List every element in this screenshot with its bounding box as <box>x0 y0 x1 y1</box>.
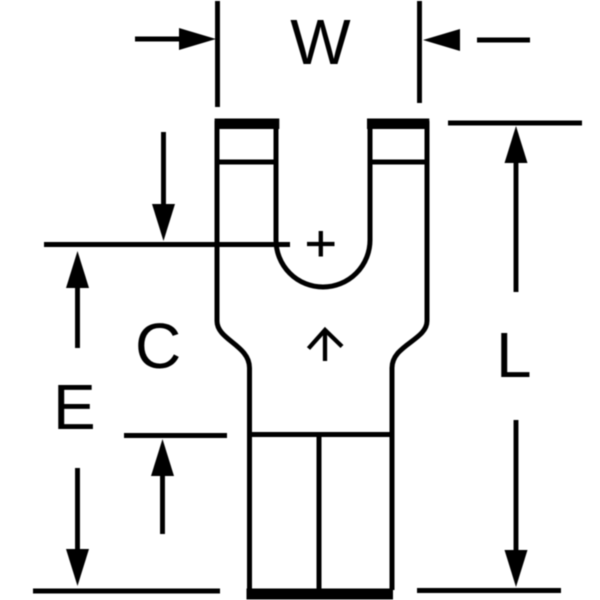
L down arrowhead <box>505 550 528 587</box>
bottom baseline left segment <box>33 589 220 594</box>
svg-text:L: L <box>496 319 532 391</box>
W right dash <box>477 38 530 43</box>
C lower dimension line <box>160 475 165 534</box>
W left dimension line <box>135 37 182 42</box>
right prong top thick bar <box>367 119 429 130</box>
svg-text:W: W <box>290 6 351 78</box>
W right arrowhead <box>423 29 460 51</box>
fork slot inner edges and arc <box>276 121 370 287</box>
right prong seam line <box>368 160 429 165</box>
L top extension line <box>448 121 582 126</box>
C upper dimension line <box>161 132 166 206</box>
C top reference line <box>44 242 290 247</box>
E up arrowhead <box>66 251 89 288</box>
C up arrowhead <box>151 439 174 476</box>
L dimension <box>33 123 582 591</box>
terminal fork outline right side <box>392 121 427 590</box>
W dimension <box>135 1 530 107</box>
stamped up-arrow mark <box>309 330 343 361</box>
barrel bottom thick bar <box>247 589 394 600</box>
E down arrowhead <box>66 549 89 586</box>
left prong seam line <box>215 160 278 165</box>
svg-text:C: C <box>135 310 181 382</box>
barrel top crimp line <box>250 432 393 437</box>
bottom baseline right segment <box>417 588 561 593</box>
svg-text:E: E <box>53 371 96 443</box>
E upper dimension line <box>75 286 80 348</box>
L up arrowhead <box>505 126 528 163</box>
C down arrowhead <box>152 204 175 241</box>
E lower dimension line <box>75 468 80 552</box>
plus mark at slot center <box>307 231 335 257</box>
barrel center split line <box>317 435 322 593</box>
L upper dimension line <box>514 160 519 292</box>
W right extension line <box>417 1 422 103</box>
W left arrowhead <box>179 28 216 50</box>
W left extension line <box>215 1 220 107</box>
C dimension <box>44 132 290 534</box>
L lower dimension line <box>514 420 519 552</box>
E dimension <box>75 286 80 552</box>
left prong top thick bar <box>215 119 280 130</box>
terminal fork outline left side <box>217 121 250 590</box>
C bottom reference line <box>124 433 227 438</box>
